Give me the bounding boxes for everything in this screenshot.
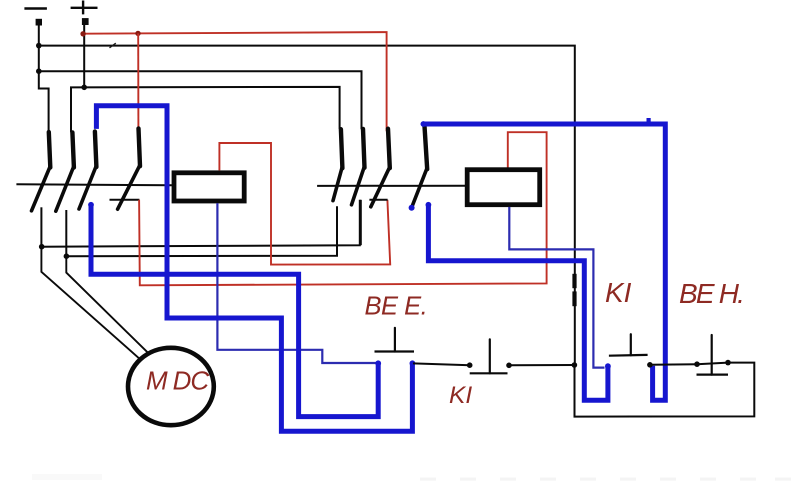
contactor K2 main contact 4 bar <box>425 126 428 169</box>
wire bus line 1 (minus rail to control return) <box>39 46 575 365</box>
contactor K1 main contact 2 bar <box>72 132 74 167</box>
node blue end cap at KI left <box>605 363 611 369</box>
svg-text:KI: KI <box>449 382 472 409</box>
contactor K1 main contact 1 blade <box>32 167 50 211</box>
wire phase bus to coil K1 <box>16 183 172 186</box>
wire blue coil K1 bottom to button BE E <box>217 203 377 363</box>
contactor K2 main contact 3 bar <box>388 129 390 169</box>
junction dot bus2/minus <box>36 68 42 74</box>
faint artifact dashes bottom <box>420 478 791 481</box>
wire BE E to KI <box>413 363 470 365</box>
wire bus line 2 to contact K2.2 <box>39 71 362 129</box>
terminal plus pad <box>82 18 89 25</box>
junction dot KI right <box>506 363 512 369</box>
terminal plus symbol <box>71 1 98 15</box>
contact KI hold bar <box>609 354 648 357</box>
node blue start cap <box>426 202 432 208</box>
wire BE H return loop <box>575 363 755 417</box>
junction dot bus1/minus <box>36 43 42 49</box>
node blue cap BE E right <box>410 360 416 366</box>
node red junction dot <box>135 31 140 36</box>
button KI plunger <box>489 339 491 373</box>
junction dot motor feed 2 <box>64 253 70 259</box>
wire below contact K1.2 <box>65 210 67 256</box>
retrace mark upper on control return wire <box>572 274 576 288</box>
wire red drop to contact K1.4 <box>137 33 139 126</box>
svg-text:M DC: M DC <box>146 366 209 396</box>
wire blue thick from contact K1.3 to BE E left <box>91 205 378 417</box>
wire blue coil K2 bottom to contact KI hold <box>509 207 604 368</box>
coil K1 <box>174 173 244 201</box>
wire red from contact K1.4 to coil K2 feed <box>139 132 546 285</box>
wire stub below contact K1.4 <box>110 199 140 201</box>
terminal minus pad <box>36 19 42 26</box>
contactor K1 main contact 4 blade <box>118 166 140 210</box>
wire below contact K2.2 <box>360 200 362 245</box>
button BE E bar <box>375 350 415 352</box>
wire blue thick from contact K2.4 to contact KI <box>428 205 608 400</box>
contact KI hold plunger <box>630 334 632 355</box>
coil K2 <box>467 170 540 205</box>
wire phase bus to coil K2 <box>317 185 465 187</box>
wire blue thick hold path left (to BE E right) <box>96 106 412 431</box>
contactor K1 main contact 3 bar <box>95 132 97 168</box>
contactor K1 main contact 4 bar <box>139 129 141 167</box>
button KI bar <box>470 372 508 374</box>
stray tick on bus line 1 <box>110 43 116 48</box>
junction dot bus3/plus <box>81 85 87 91</box>
wire minus drop to contact K1.1 <box>39 26 49 133</box>
node blue top of contact K2.4 <box>421 121 427 127</box>
blue tick on hold path <box>647 118 651 124</box>
contactor K1 main contact 2 blade <box>56 167 74 211</box>
faint artifact rectangle bottom left <box>32 474 102 480</box>
wire blue thick hold path right <box>423 124 665 400</box>
button BE H plunger <box>711 335 713 375</box>
wire red coil K1 top loop <box>219 143 390 265</box>
button BE E plunger <box>394 328 396 352</box>
wire below contact K1.1 <box>40 207 42 246</box>
motor M DC <box>128 348 214 425</box>
node blue end of contact K2.4 blade <box>409 205 415 211</box>
junction dot KI hold right <box>647 362 653 368</box>
junction dot motor feed 1 <box>39 244 45 250</box>
junction dot BE H right <box>725 360 731 366</box>
svg-text:BE E.: BE E. <box>365 292 428 320</box>
terminal minus symbol <box>24 7 47 9</box>
svg-text:KI: KI <box>605 277 632 308</box>
wire stub below contact K2.3 <box>369 199 387 201</box>
wire KI hold to BE H <box>650 363 697 366</box>
wire motor feed 2 <box>66 256 148 353</box>
wire motor feed 1 <box>41 247 140 360</box>
contactor K2 main contact 1 bar <box>341 129 343 168</box>
contactor K2 main contact 2 blade <box>352 167 365 205</box>
svg-text:BE H.: BE H. <box>679 278 743 309</box>
contactor K1 main contact 1 bar <box>49 132 51 168</box>
junction dot BE H left <box>694 361 700 367</box>
contactor K2 main contact 2 bar <box>363 129 365 168</box>
contactor K1 main contact 3 blade <box>79 167 96 210</box>
junction dot KI left <box>467 362 473 368</box>
node red plus dot <box>80 31 85 36</box>
wire plus drop <box>83 25 85 87</box>
wire red plus rail <box>83 32 387 131</box>
contactor K2 main contact 1 blade <box>333 168 342 201</box>
node blue cap BE E left <box>375 360 381 366</box>
contactor K2 main contact 4 blade <box>412 169 427 208</box>
node blue cap start contact K1.3 <box>88 202 94 208</box>
wire bus line 3 to contact K2.1 <box>71 87 340 132</box>
button BE H bar <box>697 374 729 376</box>
retrace mark lower on control return wire <box>572 291 576 306</box>
contactor K2 main contact 3 blade <box>371 168 390 207</box>
wire KI to control return <box>509 364 574 366</box>
junction dot control return <box>572 362 578 368</box>
wire lower bus 2 <box>65 206 337 256</box>
wire lower bus 1 <box>41 200 360 247</box>
